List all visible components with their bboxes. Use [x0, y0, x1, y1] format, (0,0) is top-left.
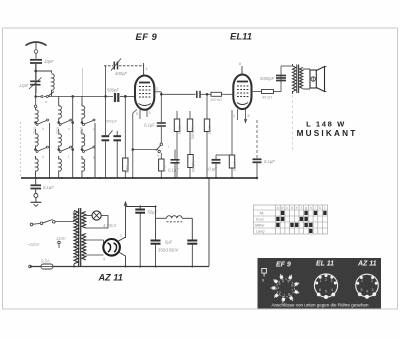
- wire bottom rail: [30, 266, 209, 268]
- resistor cathode 2000: [231, 110, 233, 178]
- svg-text:4: 4: [103, 257, 105, 261]
- svg-text:4: 4: [146, 67, 148, 71]
- svg-text:3: 3: [277, 286, 279, 290]
- pin EL11 top: [241, 66, 243, 75]
- svg-text:b: b: [42, 127, 44, 131]
- svg-text:500pF: 500pF: [106, 120, 117, 124]
- svg-text:350/1500V: 350/1500V: [158, 248, 179, 253]
- svg-text:200Ω: 200Ω: [233, 162, 237, 171]
- svg-text:AZ 11: AZ 11: [98, 273, 123, 283]
- table row labels: [255, 212, 265, 234]
- wire B+ dashed: [292, 95, 294, 150]
- capacitor 8uF second: [187, 241, 197, 267]
- wire grid column: [124, 96, 126, 178]
- svg-text:5: 5: [136, 112, 138, 116]
- junction dots bus: [35, 177, 258, 179]
- socket EL11: [314, 274, 337, 299]
- resistor 45k anode: [262, 90, 274, 94]
- switch column 2b: [58, 146, 74, 153]
- socket diagram panel: [258, 258, 382, 309]
- svg-text:7: 7: [291, 289, 293, 293]
- wire speaker: [303, 69, 310, 89]
- svg-text:5000pF: 5000pF: [260, 76, 275, 81]
- capacitor 8uF first: [151, 241, 161, 267]
- trimmer capacitor 400pF: [104, 59, 144, 71]
- svg-text:e: e: [296, 206, 298, 210]
- svg-text:45 kΩ: 45 kΩ: [262, 96, 272, 100]
- antenna: [26, 42, 47, 59]
- capacitor padder B: [109, 131, 121, 179]
- capacitor coupling: [197, 91, 200, 98]
- svg-text:Anschlüsse von unten gegen die: Anschlüsse von unten gegen die Röhre ges…: [271, 302, 369, 307]
- tube AZ11 rectifier: [103, 239, 120, 256]
- choke filter: [156, 207, 193, 241]
- wire to EL11 grid: [222, 93, 234, 95]
- svg-text:7kΩ: 7kΩ: [162, 165, 166, 172]
- switch antenna: [35, 92, 113, 98]
- svg-text:20 µF: 20 µF: [205, 167, 217, 172]
- wire chassis bus: [21, 177, 257, 179]
- pins EL11 bottom: [238, 109, 247, 122]
- svg-text:6: 6: [291, 284, 293, 288]
- svg-text:0,06: 0,06: [79, 127, 83, 134]
- svg-text:12pF: 12pF: [19, 83, 29, 88]
- ground: [31, 194, 42, 207]
- junction dots rail: [73, 206, 193, 268]
- svg-text:0,02: 0,02: [56, 127, 60, 134]
- svg-text:8: 8: [239, 62, 241, 66]
- table header letters: [277, 206, 326, 210]
- model label: [297, 120, 358, 139]
- svg-text:1: 1: [320, 279, 322, 283]
- svg-text:50µF: 50µF: [148, 210, 158, 215]
- capacitor 500pF: [115, 93, 135, 102]
- svg-text:b: b: [282, 206, 284, 210]
- svg-text:~220V: ~220V: [27, 242, 40, 247]
- resistor tone series: [159, 159, 164, 171]
- svg-text:0,1µF: 0,1µF: [144, 123, 155, 128]
- svg-text:d: d: [291, 206, 293, 210]
- svg-text:1MΩ: 1MΩ: [208, 126, 212, 134]
- wire top link coils: [83, 66, 106, 178]
- svg-text:EL11: EL11: [230, 31, 252, 42]
- pilot lamp: [86, 211, 109, 228]
- svg-text:MUSIKANT: MUSIKANT: [297, 129, 358, 138]
- output transformer: [293, 64, 303, 94]
- capacitor 5000pF: [276, 76, 286, 81]
- socket EF9: [271, 274, 300, 302]
- svg-text:5: 5: [361, 288, 363, 292]
- svg-text:g: g: [305, 206, 307, 210]
- svg-text:EF 9: EF 9: [276, 262, 291, 269]
- svg-text:1MΩ: 1MΩ: [125, 165, 129, 173]
- wire B+ rectifier riser: [124, 202, 156, 238]
- loudspeaker: [310, 67, 327, 92]
- capacitor 50uF: [135, 207, 145, 267]
- svg-text:TA: TA: [259, 212, 264, 216]
- svg-text:k: k: [319, 206, 321, 210]
- svg-text:2: 2: [325, 278, 327, 282]
- switch column 3b: [81, 146, 95, 153]
- svg-text:Lang: Lang: [256, 230, 265, 234]
- svg-text:c: c: [68, 127, 70, 131]
- tap 110V: [58, 241, 61, 248]
- tube EL11: [233, 75, 251, 110]
- svg-text:g: g: [93, 155, 95, 159]
- pin EL11 anode wire: [252, 66, 293, 92]
- resistor 1M: [206, 93, 208, 178]
- svg-text:Mittel: Mittel: [255, 224, 264, 228]
- svg-text:0,1µF: 0,1µF: [43, 185, 54, 190]
- svg-text:AZ 11: AZ 11: [357, 261, 377, 268]
- svg-text:c: c: [286, 206, 288, 210]
- tube EF9: [135, 76, 154, 110]
- svg-text:2: 2: [371, 279, 373, 283]
- svg-text:1: 1: [283, 293, 285, 297]
- capacitor tone 0.1uF: [171, 150, 180, 179]
- switch column 1a: [35, 119, 49, 126]
- switch tone: [156, 127, 163, 159]
- mains switch: [30, 211, 74, 226]
- svg-text:0,1µF: 0,1µF: [264, 159, 275, 164]
- svg-text:f: f: [301, 206, 302, 210]
- svg-text:3: 3: [372, 288, 374, 292]
- svg-text:0,02: 0,02: [33, 127, 37, 134]
- coil bank column 1: [36, 110, 50, 178]
- svg-text:3: 3: [331, 279, 333, 283]
- switch column 1b: [35, 146, 49, 153]
- table filled cells: [276, 211, 326, 233]
- capacitor 0.1uF anode: [157, 118, 166, 126]
- svg-text:5: 5: [325, 290, 327, 294]
- power transformer: [74, 208, 86, 267]
- capacitor padder A: [102, 136, 110, 140]
- switching table: [254, 205, 328, 234]
- svg-text:4,5/0,3: 4,5/0,3: [103, 223, 116, 228]
- svg-text:0,22MΩ: 0,22MΩ: [191, 126, 195, 140]
- pin EF9 top: [143, 63, 145, 76]
- svg-text:h: h: [310, 206, 312, 210]
- svg-text:4: 4: [282, 279, 284, 283]
- svg-text:a: a: [277, 206, 279, 210]
- svg-text:500pF: 500pF: [107, 88, 119, 93]
- svg-text:1: 1: [120, 234, 122, 238]
- socket AZ11: [356, 274, 379, 299]
- pin EF9 anode: [154, 92, 162, 118]
- svg-text:10pF: 10pF: [44, 59, 54, 64]
- svg-text:4: 4: [331, 288, 333, 292]
- wire antenna down: [35, 64, 37, 94]
- svg-text:3: 3: [149, 111, 151, 115]
- pins EF9 bottom: [132, 110, 158, 179]
- switch column 2a: [58, 119, 74, 126]
- variable capacitor antenna trimmer: [29, 78, 42, 90]
- svg-text:a: a: [45, 100, 47, 104]
- svg-text:1: 1: [361, 279, 363, 283]
- fuse: [29, 264, 53, 269]
- svg-text:6: 6: [319, 288, 321, 292]
- svg-text:8µF: 8µF: [165, 240, 173, 245]
- socket EF9 cap symbol: [262, 269, 267, 277]
- svg-text:1: 1: [233, 114, 235, 118]
- svg-text:Kurz: Kurz: [256, 218, 264, 222]
- svg-text:100 kΩ: 100 kΩ: [210, 98, 222, 102]
- capacitor 20uF cathode: [212, 155, 233, 178]
- wire AZ11 cathode: [118, 237, 126, 267]
- resistor 2M screen: [176, 111, 178, 178]
- svg-text:5: 5: [288, 280, 290, 284]
- resistor 100k grid stopper: [211, 92, 222, 96]
- svg-text:0,5A: 0,5A: [41, 259, 50, 264]
- svg-text:0,5MΩ: 0,5MΩ: [191, 161, 195, 172]
- coil bank column 3: [82, 96, 95, 178]
- capacitor 0.1uF right: [253, 120, 262, 178]
- coil antenna primary: [36, 71, 55, 97]
- svg-text:EF 9: EF 9: [136, 32, 158, 43]
- svg-text:4: 4: [366, 290, 368, 294]
- switch column 3a: [81, 119, 95, 126]
- wire antenna junction: [35, 64, 37, 97]
- switch id letters: [42, 100, 169, 159]
- capacitor chassis ground: [31, 178, 42, 194]
- wire HT return riser: [208, 178, 210, 267]
- svg-text:8: 8: [288, 292, 290, 296]
- wire to grid resistor: [201, 93, 212, 95]
- wire ganged dashed: [20, 122, 22, 178]
- svg-text:d: d: [93, 127, 95, 131]
- wires AZ11 heater: [86, 240, 104, 255]
- svg-text:L 148 W: L 148 W: [306, 120, 346, 129]
- resistor 0.5M volume: [188, 155, 193, 168]
- svg-text:0,1µF: 0,1µF: [168, 168, 179, 173]
- capacitor antenna coupling: [30, 60, 42, 63]
- svg-text:2MΩ: 2MΩ: [178, 126, 182, 134]
- svg-text:EL 11: EL 11: [316, 261, 334, 268]
- svg-text:2: 2: [279, 291, 281, 295]
- wire coupling: [161, 93, 196, 95]
- svg-text:400pF: 400pF: [115, 71, 127, 76]
- svg-text:e: e: [42, 155, 44, 159]
- terminal antenna column: [34, 97, 37, 111]
- resistor 0.22M: [189, 111, 191, 155]
- svg-text:9: 9: [279, 282, 281, 286]
- svg-text:2: 2: [156, 87, 158, 91]
- svg-text:h: h: [157, 154, 159, 158]
- svg-text:110V: 110V: [56, 236, 67, 241]
- coil bank column 2: [59, 96, 73, 178]
- resistor grid leak: [123, 158, 128, 171]
- svg-text:6: 6: [248, 114, 250, 118]
